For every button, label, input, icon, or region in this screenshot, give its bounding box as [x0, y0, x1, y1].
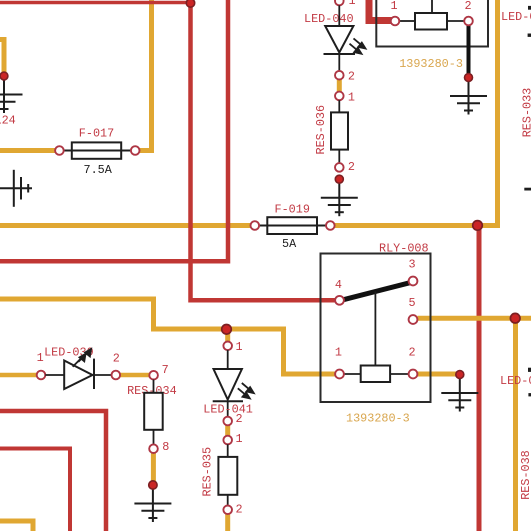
- terminal circle RES-035 pin2: [223, 506, 232, 515]
- terminal circle RLY-008 pin5: [409, 315, 418, 324]
- terminal circle F-019 left: [251, 221, 260, 230]
- LED-039 symbol: [45, 359, 111, 389]
- wire yellow trunk from F-017 left to left edge: [0, 148, 55, 153]
- fuse F-019: [259, 217, 326, 234]
- wire yellow RLY-008 pin 2 to ground dot: [418, 372, 460, 377]
- svg-text:RES-036: RES-036: [314, 105, 328, 155]
- terminal circle LED-039 pin2: [112, 371, 121, 380]
- junction dot yellow pin5 branch: [510, 313, 520, 323]
- relay RLY-008 lead pin1-coil: [344, 373, 361, 375]
- wire red corner inner bottom left: [0, 449, 70, 531]
- wire yellow branch down to bottom edge x=515.5: [513, 318, 518, 531]
- LED-038 symbol fragment top: [528, 6, 531, 10]
- relay RLY-008 actuator stub: [374, 292, 376, 366]
- junction dot yellow trunk red branch: [473, 221, 483, 231]
- svg-text:1: 1: [349, 0, 356, 8]
- svg-text:LED-040: LED-040: [304, 12, 354, 26]
- relay top coil: [415, 13, 447, 30]
- wire yellow LED-040 pin2 to RES-036 pin1: [337, 80, 342, 92]
- terminal circle RLY-008 pin2: [409, 370, 418, 379]
- terminal circle RLY-008 pin3: [409, 277, 418, 286]
- junction dot below relay top pin2: [465, 74, 473, 82]
- svg-text:2: 2: [236, 412, 243, 426]
- terminal circle RLY-008 pin4: [335, 296, 344, 305]
- ground G5 right of RLY-008: [441, 375, 478, 412]
- terminal circle LED-039 pin1: [37, 371, 46, 380]
- svg-text:7: 7: [162, 363, 169, 377]
- terminal circle LED-040 pin2: [335, 71, 344, 80]
- relay top box 1393280-3: [376, 0, 488, 47]
- relay top lead coil-pin2: [447, 20, 464, 22]
- terminal circle RES-036 pin1: [335, 92, 344, 101]
- wire yellow stub top left to ground G1: [0, 40, 4, 75]
- relay RLY-008 box: [321, 254, 431, 403]
- svg-text:1: 1: [236, 340, 243, 354]
- ground G1 top left: [0, 76, 23, 113]
- junction dot yellow wire to ground G1: [0, 72, 8, 80]
- resistor RES-034: [144, 380, 163, 445]
- terminal circle F-019 right: [326, 221, 335, 230]
- wire yellow RLY-008 pin 5 to right edge: [418, 316, 531, 321]
- terminal circle F-017 right: [131, 146, 140, 155]
- LED-037 symbol fragment cathode: [528, 393, 531, 396]
- wire red vertical x=228 with turn left at y=261: [0, 0, 228, 261]
- svg-text:2: 2: [465, 0, 472, 13]
- relay top coil stub: [431, 0, 433, 12]
- junction dot RES-034 ground: [149, 481, 157, 489]
- ground G3 below RES-036: [321, 179, 358, 216]
- resistor RES-036: [331, 100, 348, 163]
- terminal circle relay top pin 2: [464, 17, 473, 26]
- junction dot top red wire: [186, 0, 194, 7]
- wire yellow LED-039 row left: [0, 373, 37, 378]
- svg-text:1: 1: [236, 432, 243, 446]
- wire yellow trunk left segment y=225 to F-019: [0, 223, 251, 228]
- wire yellow from F-017 right up to top edge: [140, 0, 152, 151]
- wire yellow LED-041 pin2 to RES-035 pin1: [225, 425, 230, 436]
- svg-text:LED-041: LED-041: [203, 402, 253, 416]
- terminal circle RES-035 pin1: [223, 436, 232, 445]
- wire black relay pin2 down to ground dot: [467, 25, 471, 74]
- wire yellow LED-039 pin2 to node 7: [120, 373, 149, 378]
- terminal circle node 8: [149, 444, 158, 453]
- wire yellow main run to RLY-008 pin 1: [0, 299, 336, 374]
- wire red thick trunk to relay pin 1: [369, 0, 392, 21]
- svg-text:1393280-3: 1393280-3: [346, 411, 410, 425]
- svg-text:5: 5: [409, 296, 416, 310]
- relay RLY-008 switch blade pin4-pin3: [344, 283, 410, 300]
- svg-text:LED-03: LED-03: [500, 374, 531, 388]
- svg-text:1: 1: [391, 0, 398, 13]
- junction dot RLY-008 pin2 ground: [456, 371, 464, 379]
- wire red trunk vertical x=479: [477, 225, 482, 531]
- svg-text:4: 4: [335, 278, 342, 292]
- terminal circle LED-041 pin2: [223, 417, 232, 426]
- ground G6 below RES-034: [134, 485, 171, 522]
- LED-037 symbol fragment top: [528, 368, 531, 372]
- junction dot RES-036 ground: [335, 175, 343, 183]
- svg-text:RES-035: RES-035: [201, 447, 215, 497]
- svg-text:1: 1: [37, 351, 44, 365]
- relay RLY-008 coil: [361, 366, 390, 383]
- svg-text:F-017: F-017: [79, 127, 114, 141]
- svg-text:LED-038: LED-038: [501, 10, 531, 24]
- LED-041 symbol: [213, 350, 243, 417]
- ground G2 sideways left edge: [0, 170, 32, 207]
- svg-text:1: 1: [348, 90, 355, 104]
- svg-text:3: 3: [409, 258, 416, 272]
- svg-text:2: 2: [348, 70, 355, 84]
- terminal circle RES-036 pin2: [335, 163, 344, 172]
- LED-040 emission arrows: [350, 38, 366, 53]
- svg-text:1393280-3: 1393280-3: [399, 57, 463, 71]
- terminal circle node 7: [149, 371, 158, 380]
- svg-text:8: 8: [162, 440, 169, 454]
- ground G4 below relay top: [450, 78, 487, 115]
- LED-038 symbol fragment cathode: [528, 34, 531, 37]
- terminal circle RLY-008 pin1: [335, 370, 344, 379]
- svg-text:2: 2: [409, 346, 416, 360]
- wire yellow node 8 to ground dot: [151, 453, 156, 482]
- terminal circle relay top pin 1: [391, 17, 400, 26]
- junction dot LED-041 top: [222, 325, 232, 335]
- svg-text:124: 124: [0, 114, 16, 128]
- LED-041 emission arrows: [238, 383, 254, 398]
- wire red corner outer bottom left: [0, 411, 106, 531]
- fuse F-017: [64, 142, 131, 158]
- RES-033 rect fragment: [524, 188, 531, 191]
- svg-text:RES-038: RES-038: [519, 450, 531, 500]
- terminal circle F-017 left: [55, 146, 64, 155]
- svg-text:2: 2: [236, 502, 243, 516]
- wire yellow junction to LED-041 pin1: [225, 331, 230, 342]
- svg-text:F-019: F-019: [275, 203, 310, 217]
- svg-text:7.5A: 7.5A: [84, 163, 113, 177]
- resistor RES-035: [218, 444, 237, 505]
- wire yellow corner bottom left: [0, 521, 33, 531]
- relay RLY-008 lead coil-pin2: [390, 373, 409, 375]
- wire red from top junction down to RLY-008 pin 4: [191, 3, 337, 301]
- wire yellow RES-035 pin2 to bottom edge: [225, 514, 230, 531]
- LED-040 symbol: [324, 5, 356, 71]
- wire yellow trunk from F-019 right to top right corner: [335, 0, 498, 226]
- svg-text:RES-033: RES-033: [520, 88, 531, 138]
- terminal circle LED-040 pin1: [335, 0, 344, 5]
- svg-text:2: 2: [348, 160, 355, 174]
- svg-text:1: 1: [335, 346, 342, 360]
- terminal circle LED-041 pin1: [223, 342, 232, 351]
- LED-039 emission arrows: [73, 349, 91, 367]
- wire red top horizontal: [0, 1, 191, 5]
- relay top lead pin1-coil: [399, 20, 415, 22]
- svg-text:5A: 5A: [282, 237, 297, 251]
- svg-text:2: 2: [113, 352, 120, 366]
